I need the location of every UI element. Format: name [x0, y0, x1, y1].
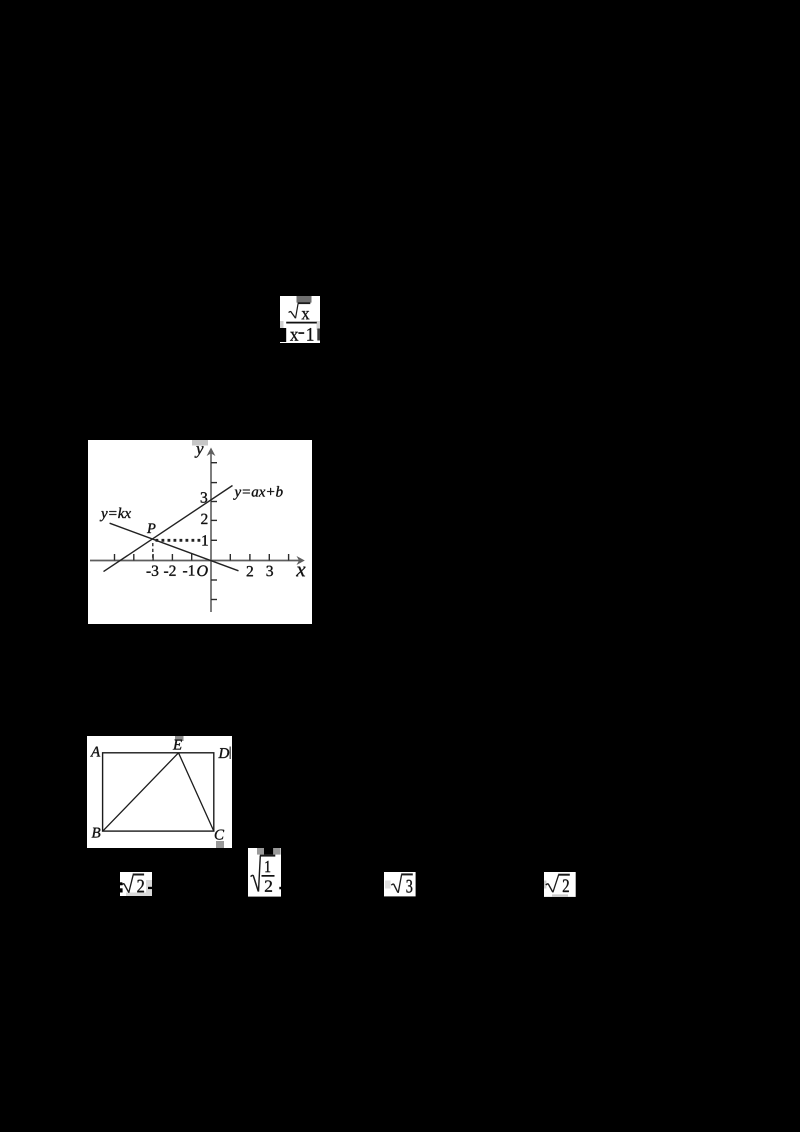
formula dark sliver right edge — [317, 329, 320, 341]
sqrt2a dash right — [148, 886, 152, 888]
sqrt12 radical sign — [250, 855, 275, 891]
label P — [147, 524, 156, 533]
sqrt2b gray bottom strip — [552, 894, 568, 897]
label E — [173, 740, 182, 750]
formula denominator 1 — [307, 328, 313, 341]
y-axis label 3 — [201, 492, 207, 502]
sqrt2a left edge marks — [120, 882, 123, 892]
label C — [215, 830, 224, 840]
x-axis label -1 — [183, 565, 194, 575]
formula denominator x — [290, 332, 298, 341]
sqrt12 white background — [248, 848, 281, 897]
formula left gray edge artifact — [280, 321, 284, 330]
label y=kx — [100, 508, 131, 522]
sqrt2a gray right patch — [146, 880, 152, 896]
sqrt12 fraction bar — [261, 875, 274, 877]
label D — [218, 748, 229, 758]
sqrt2b radical sign — [546, 874, 570, 892]
label O at origin — [197, 565, 207, 576]
x-axis with arrow — [90, 556, 305, 565]
formula radicand x — [302, 311, 310, 319]
formula fraction bar — [286, 322, 317, 324]
label x on x-axis — [296, 567, 305, 577]
formula denominator minus sign — [298, 332, 304, 334]
formula black blob artifact left of denominator — [280, 328, 286, 342]
formula white background — [280, 296, 320, 343]
sqrt2a white background — [120, 872, 152, 896]
y-axis label 1 — [202, 535, 207, 545]
segment BE — [103, 753, 179, 831]
x-axis label -2 — [164, 566, 175, 576]
sqrt2b digit 2 — [563, 879, 569, 892]
sqrt12 denominator 2 — [264, 880, 271, 891]
sqrt12 gray handle right — [273, 848, 280, 855]
y-axis tick marks — [211, 463, 217, 600]
formula gray handle tab — [297, 296, 312, 303]
radical sqrt(2) box 1 — [120, 872, 153, 897]
line y=kx — [110, 523, 239, 571]
formula right gray edge artifact — [317, 321, 321, 330]
sqrt2a digit 2 — [137, 879, 144, 892]
x-axis label -3 — [147, 566, 159, 576]
x-axis tick marks — [115, 554, 289, 561]
gray handle below C — [216, 841, 224, 848]
y-axis with arrow — [207, 448, 216, 613]
sqrt2a gray bottom patch — [126, 892, 152, 896]
dashed vertical from P to x-axis — [152, 543, 154, 560]
sqrt2b white background — [544, 872, 576, 897]
graph gray handle tab — [192, 440, 208, 446]
formula radical sign of sqrt(x) — [289, 303, 311, 318]
sqrt12 dash right — [279, 886, 281, 889]
formula box sqrt(x)/(x-1) — [280, 295, 321, 344]
radical sqrt(3) box — [384, 872, 416, 897]
sqrt12 gray handle left — [257, 848, 264, 855]
label B — [92, 828, 101, 838]
gray handle above E — [175, 736, 184, 741]
label y=ax+b — [233, 486, 282, 500]
sqrt2b gray left bar — [544, 880, 546, 888]
caret bar after D — [230, 747, 231, 760]
label y on y-axis — [195, 446, 204, 457]
rectangle ABCD outline — [103, 753, 214, 831]
sqrt3 radical sign — [391, 874, 413, 893]
sqrt12 black gap handle — [264, 848, 273, 855]
sqrt3 digit 3 — [406, 879, 412, 892]
line y=ax+b — [104, 486, 233, 572]
sqrt12 numerator 1 — [265, 860, 270, 871]
graph white background — [88, 440, 312, 624]
figure white background — [87, 736, 232, 848]
dotted horizontal from P to y-axis — [156, 539, 204, 542]
radical sqrt(1/2) box — [248, 848, 282, 897]
y-axis label 2 — [201, 514, 207, 524]
sqrt2a radical sign — [121, 874, 144, 892]
sqrt3 white background — [384, 872, 416, 896]
rectangle ABCD figure box — [87, 735, 232, 848]
radical sqrt(2) box 2 — [544, 872, 576, 897]
coordinate graph box — [88, 440, 312, 624]
x-axis label 3 — [267, 566, 273, 576]
segment EC — [179, 753, 214, 831]
label A — [90, 747, 100, 757]
x-axis label 2 — [247, 566, 253, 576]
sqrt3 gray left patch — [385, 880, 391, 888]
